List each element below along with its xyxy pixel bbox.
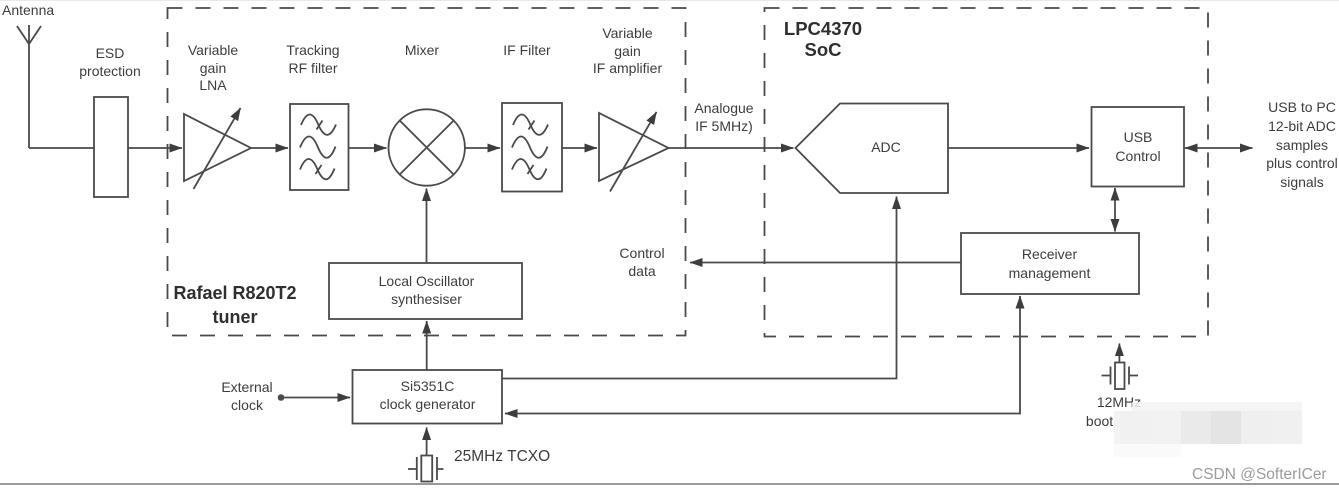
- receiver management label: [979, 245, 1120, 283]
- wire ADC to USB control: [948, 147, 1089, 149]
- wire antenna to ESD: [29, 147, 94, 149]
- external clock label: [187, 379, 307, 414]
- mosaic censor patch: [1132, 402, 1302, 411]
- external clock arrow: [281, 397, 350, 399]
- arrow Si5351C to local oscillator: [426, 321, 428, 370]
- tracking RF filter label: [253, 42, 373, 77]
- tracking filter waves: [301, 115, 336, 135]
- wire receiver mgmt to Si5351C (both arrows): [505, 296, 1020, 414]
- receiver management box: [961, 233, 1139, 294]
- wire filter to mixer: [349, 147, 387, 149]
- wire mixer to IF filter: [465, 147, 500, 149]
- ESD protection label: [50, 45, 170, 80]
- Si5351C box: [353, 370, 503, 424]
- variable gain LNA label: [153, 42, 273, 95]
- USB to PC label: [1252, 98, 1339, 192]
- resistor-style ESD protection box: [94, 97, 128, 197]
- external clock node dot: [279, 395, 284, 400]
- bootloader label: [1059, 413, 1179, 431]
- dashed box LPC4370 SoC: [765, 8, 1209, 337]
- analogue IF node label: [664, 100, 784, 135]
- arrow 25MHz TCXO to Si5351C: [426, 428, 428, 456]
- variable gain IF amplifier label: [557, 25, 698, 78]
- top faint line: [0, 0, 1339, 1]
- LPC4370 SoC heading: [753, 18, 893, 61]
- local oscillator box: [329, 263, 522, 319]
- control data label: [582, 245, 702, 280]
- IF filter box: [502, 103, 562, 192]
- control data arrow: [690, 262, 961, 264]
- USB external double arrow: [1185, 147, 1253, 149]
- wire Si5351C clock to ADC: [502, 197, 897, 379]
- ADC label: [826, 139, 946, 157]
- crystal 25MHz TCXO: [421, 456, 432, 482]
- USB to receiver mgmt double arrow: [1114, 188, 1116, 232]
- node Antenna label: [2, 2, 54, 20]
- wire IF amp to ADC: [669, 147, 794, 149]
- LNA variable gain arrow: [194, 108, 241, 189]
- USB control box: [1092, 107, 1185, 187]
- 12MHz label: [1059, 394, 1179, 412]
- USB control label: [1078, 128, 1198, 166]
- 25MHz TCXO label: [454, 448, 550, 466]
- wire LNA to tracking filter: [251, 147, 288, 149]
- dashed box Rafael R820T2 tuner: [168, 8, 686, 336]
- local oscillator synthesiser label: [356, 273, 497, 308]
- arrow 12MHz crystal to SoC: [1118, 344, 1120, 363]
- Rafael R820T2 tuner heading: [155, 281, 315, 329]
- ADC pentagon: [796, 104, 949, 194]
- crystal 12MHz boot: [1115, 363, 1125, 390]
- bottom border line: [0, 483, 1339, 485]
- wire IF filter to IF amplifier: [562, 147, 597, 149]
- mixer circle with X: [389, 109, 465, 185]
- op-amp style LNA triangle: [184, 114, 251, 181]
- IF amp variable gain arrow: [610, 112, 657, 192]
- mixer label: [362, 42, 482, 60]
- arrow local oscillator to mixer: [426, 189, 428, 264]
- tracking RF filter box: [290, 104, 349, 190]
- wire ESD to LNA: [128, 147, 182, 149]
- IF filter waves: [513, 115, 548, 135]
- antenna: [17, 25, 41, 148]
- IF amplifier triangle: [599, 113, 669, 181]
- IF filter label: [467, 42, 587, 60]
- watermark CSDN: [1192, 466, 1327, 484]
- Si5351C clock generator label: [357, 378, 498, 413]
